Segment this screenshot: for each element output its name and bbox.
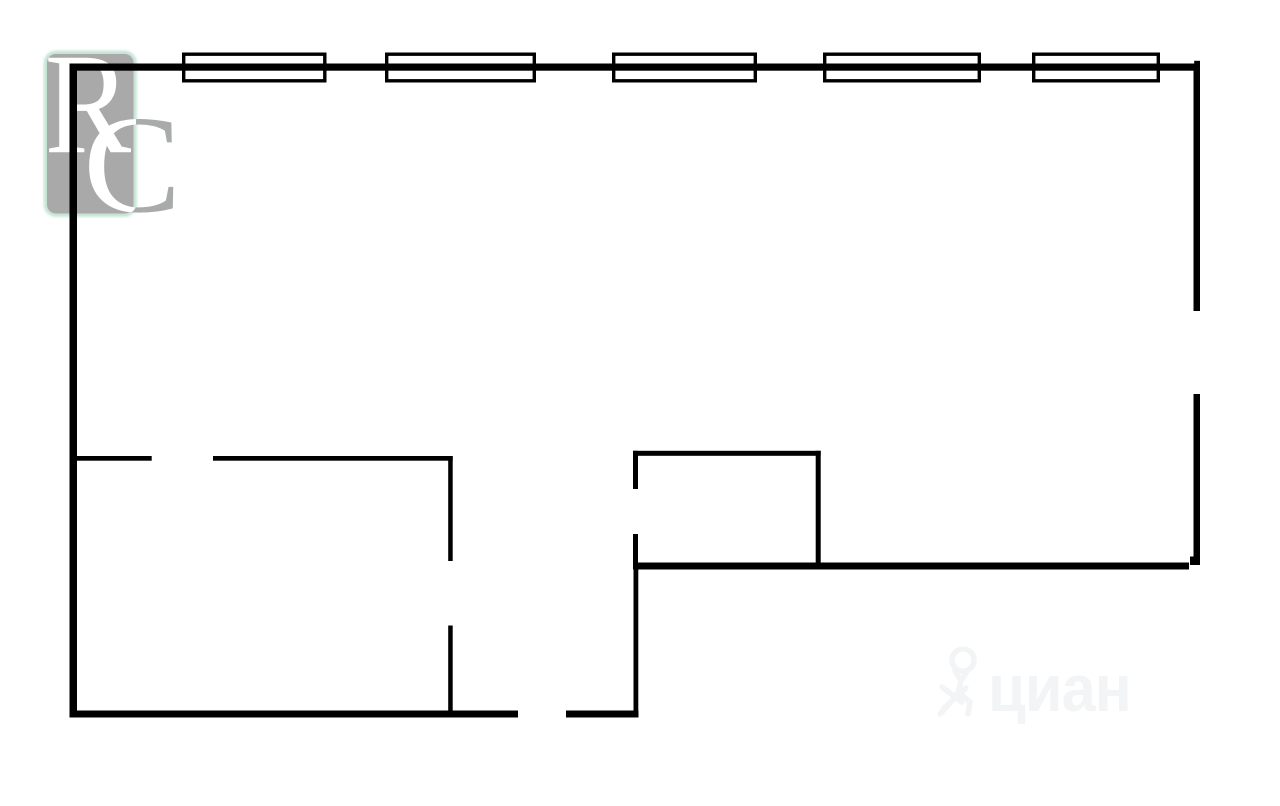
room (bath): right wall: [816, 451, 821, 563]
exterior wall: top: [70, 64, 1201, 71]
watermark cian icon (walking person with pin head): [940, 649, 974, 714]
window W1: [184, 54, 325, 81]
exterior wall: right wall foot tab: [1190, 557, 1194, 566]
interior wall: horizontal right segment (door gap 152-213): [213, 456, 453, 461]
wall: thick mid horizontal (bottom of right wing): [633, 563, 1189, 570]
window W2: [387, 54, 535, 81]
interior wall: vertical upper segment: [448, 456, 453, 561]
window W3: [614, 54, 756, 81]
logo RC: mint border glow: [47, 54, 134, 214]
interior wall: vertical below mid wall: [634, 570, 639, 711]
exterior wall: left: [70, 64, 78, 718]
room (bath): left wall upper segment: [633, 451, 638, 489]
window W4: [825, 54, 980, 81]
exterior wall: right upper segment: [1194, 64, 1201, 312]
exterior wall: top-right corner tab: [1194, 61, 1200, 64]
exterior wall: bottom left segment: [70, 711, 519, 718]
room (bath): left wall lower segment (door gap 489-534): [633, 534, 638, 563]
exterior wall: bottom right segment: [566, 711, 639, 718]
interior wall: horizontal left segment: [77, 456, 152, 461]
room (bath): top wall: [633, 451, 821, 456]
exterior wall: right lower segment: [1194, 394, 1201, 565]
window W5: [1034, 54, 1159, 81]
interior wall: vertical lower segment (door gap 561-625): [448, 626, 453, 711]
logo RC: gray box: [47, 54, 134, 214]
svg-text:циан: циан: [988, 651, 1131, 726]
